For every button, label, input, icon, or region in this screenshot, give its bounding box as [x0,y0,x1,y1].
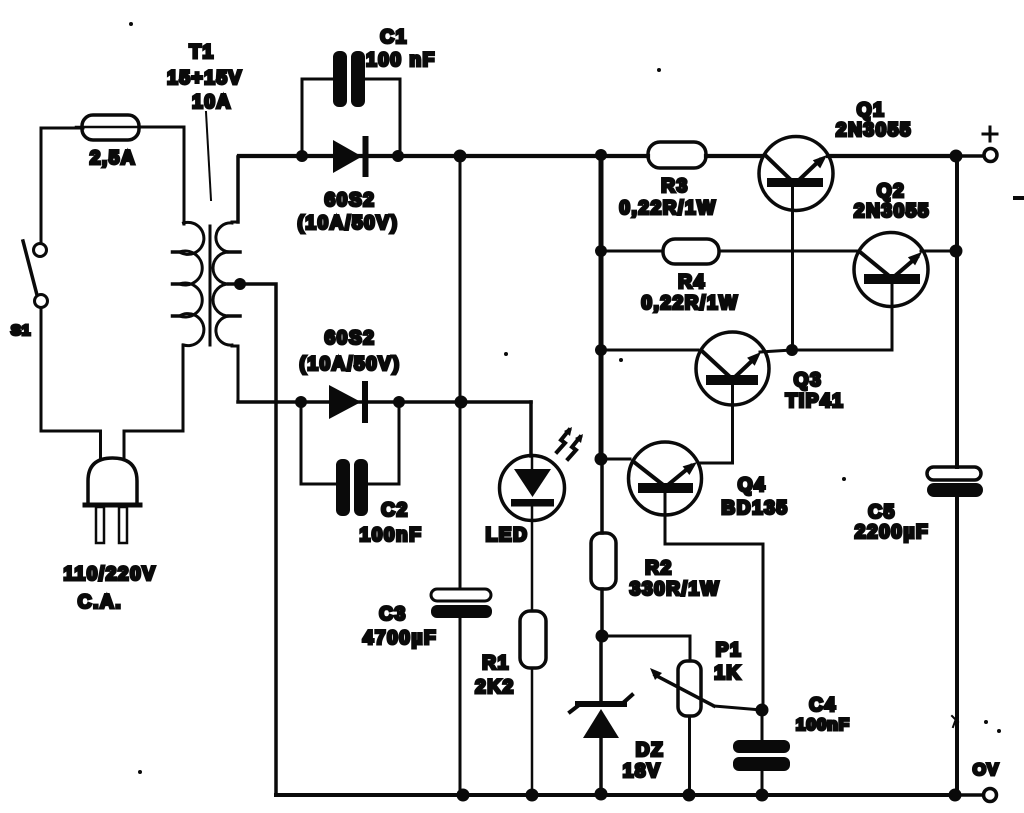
wire fuse to transformer primary top lead [140,127,184,224]
capacitor C2 plates [336,459,368,516]
node rail-C1 right [392,150,404,162]
svg-text:Q4: Q4 [738,475,767,496]
node rail-R3 tap [595,149,607,161]
svg-text:R2: R2 [645,558,673,579]
resistor R2 body [591,533,616,589]
node ground C4 [756,789,769,802]
wire P1 bottom to ground [688,716,691,795]
wire top rail right of Q1 [828,154,956,158]
transistor Q2 2N3055 [854,233,928,307]
svg-text:Q2: Q2 [877,181,906,202]
node ground C3 [457,789,470,802]
wire output column lower [955,497,959,795]
transformer T1 core [209,226,212,345]
LED light arrow 2 [568,434,583,459]
capacitor C5 2200uF [927,467,983,497]
wire switch down to plug row [41,308,100,431]
wire ground rail to 0V terminal [956,793,983,797]
svg-text:BD135: BD135 [721,498,788,519]
svg-text:OV: OV [973,760,1000,779]
wire bus to R2 [600,459,604,533]
wire plug right stem to transformer bottom-left [124,431,183,458]
LED D3 [500,456,565,521]
diode D2 60S2 [329,381,368,423]
wire rail to LED [529,402,533,456]
wire Q1 base down [791,187,794,350]
node rail-output junction [950,150,963,163]
node Q2 emitter junction [950,245,963,258]
wire output column upper [955,156,959,467]
svg-text:100nF: 100nF [360,525,423,546]
speck [138,770,142,774]
svg-text:C1: C1 [380,27,408,48]
svg-text:R3: R3 [661,176,689,197]
LED light arrow 1 [557,427,572,452]
transformer T1 secondary winding [213,222,240,346]
label + [983,127,997,141]
wire filter column lower [459,618,462,795]
capacitor C4 plates [733,740,790,771]
wire C4 top lead [761,710,764,740]
wire wiper to C4 node [714,706,762,710]
node R2-P1-DZ junction [596,630,609,643]
wire rail to plus terminal [956,154,983,158]
svg-text:18V: 18V [623,761,662,782]
node bus-R4 [595,245,607,257]
node ground C5 [949,789,962,802]
svg-text:2K2: 2K2 [475,677,515,698]
node wiper-C4 junction [756,704,769,717]
label leader line to core [206,112,211,200]
svg-text:T1: T1 [189,42,214,63]
wire LED cathode to R1 [531,520,534,611]
transistor Q4 BD135 [629,442,702,515]
transformer T1 left winding [173,222,204,345]
svg-text:60S2: 60S2 [325,328,376,349]
potentiometer P1 wiper [650,668,714,706]
capacitor C2 loop wire [301,402,399,484]
svg-text:2,5A: 2,5A [90,148,137,169]
svg-text:2200µF: 2200µF [855,522,929,543]
svg-text:60S2: 60S2 [325,190,376,211]
svg-text:330R/1W: 330R/1W [630,579,720,600]
svg-text:10A: 10A [192,92,232,113]
svg-text:C5: C5 [868,502,896,523]
speck [984,720,988,724]
wire R4 rail [601,250,663,253]
speck [952,716,958,727]
svg-text:TIP41: TIP41 [786,391,845,412]
svg-text:0,22R/1W: 0,22R/1W [641,293,738,314]
speck [997,729,1001,733]
wire Q3 base to Q4 emitter [700,385,733,463]
switch S1 [23,241,48,308]
wire ground rail [276,793,956,797]
wire transformer secondary top lead [236,157,240,222]
svg-text:P1: P1 [716,640,742,661]
wire lower diode rail [238,400,531,404]
svg-text:110/220V: 110/220V [63,564,156,585]
svg-text:100 nF: 100 nF [366,50,436,71]
terminal 0V output [984,789,997,802]
svg-text:0,22R/1W: 0,22R/1W [619,198,716,219]
svg-text:LED: LED [486,525,529,546]
resistor R1 body [520,611,546,668]
wire C4 bottom lead [761,771,764,795]
wire filter column upper [459,156,462,589]
wire zener feed [599,636,603,702]
svg-text:2N3055: 2N3055 [854,201,930,222]
wire plug left stem [99,431,102,459]
svg-text:Q3: Q3 [794,370,823,391]
node ground DZ [595,788,608,801]
node bus-Q3 rail [595,344,607,356]
capacitor C1 loop wire [302,79,400,156]
mains plug 110/220V [85,458,140,543]
svg-text:C4: C4 [809,695,837,716]
wire R1 to ground rail [531,668,534,795]
wire Q4 rail [601,458,630,461]
svg-text:DZ: DZ [636,740,665,761]
svg-text:Q1: Q1 [857,100,886,121]
capacitor C1 plates [333,51,365,107]
capacitor C3 4700uF [431,589,492,618]
resistor R3 body [648,142,706,168]
speck [619,358,623,362]
svg-text:C.A.: C.A. [78,592,122,613]
node lower rail left [295,396,307,408]
speck [1013,196,1024,200]
wire transformer primary bottom lead [182,345,185,431]
svg-text:1K: 1K [714,663,742,684]
svg-text:R1: R1 [482,653,510,674]
svg-text:100nF: 100nF [796,715,850,734]
wire Q3 rail [601,349,698,352]
speck [504,352,508,356]
speck [842,477,846,481]
node lower rail right [393,396,405,408]
wire Q2 base down [891,284,894,349]
node ground R1 [526,789,539,802]
resistor R4 body [663,239,719,264]
node rail-filter tap [454,150,467,163]
transistor Q3 TIP41 [696,332,769,405]
wire Q2 emitter to output column [921,250,957,253]
diode D1 60S2 [333,136,369,177]
svg-text:(10A/50V): (10A/50V) [300,354,401,375]
node bus-Q4 rail [595,453,608,466]
wire Q3 emitter rail to Q2 base [760,350,892,352]
node Q1 base junction [786,344,798,356]
wire transformer secondary bottom lead [237,346,240,401]
svg-text:2N3055: 2N3055 [836,120,912,141]
wire R2 to zener node [600,589,604,636]
svg-text:(10A/50V): (10A/50V) [298,213,399,234]
node center tap [234,278,246,290]
fuse F1 2,5A body [76,115,146,140]
svg-text:C2: C2 [381,500,409,521]
zener diode DZ 18V [570,695,632,738]
speck [129,22,133,26]
node ground P1 [683,789,696,802]
wire zener to ground [599,738,603,794]
node rail-C1 left [296,150,308,162]
wire top rail left [239,154,648,158]
svg-text:15+15V: 15+15V [167,68,243,89]
node lower rail filter tap [455,396,468,409]
terminal plus output [984,149,997,162]
svg-text:C3: C3 [379,604,407,625]
wire regulator left bus [599,155,604,460]
svg-text:4700µF: 4700µF [363,628,437,649]
wire junction to P1 top [602,636,690,661]
svg-text:R4: R4 [678,272,706,293]
speck [657,68,661,72]
svg-text:S1: S1 [11,322,31,339]
transistor Q1 2N3055 [759,137,833,211]
wire fuse to corner and down to switch [41,128,83,243]
potentiometer P1 body [678,661,701,716]
wire LED anode feed [531,455,534,469]
wire center tap to ground rail [240,284,276,794]
wire Q4 base to C4 node [665,493,763,711]
